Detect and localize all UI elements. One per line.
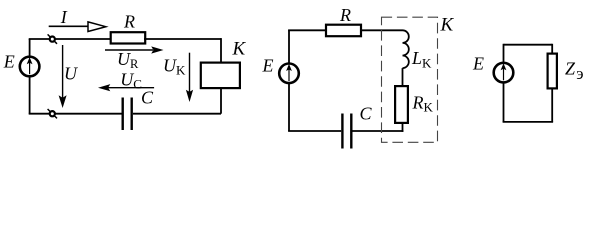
- source E2 internal arrow: [288, 69, 290, 81]
- resistor RK: [395, 86, 408, 123]
- wire: RK to bottom rail: [402, 123, 404, 132]
- capacitor C1 plates: [121, 98, 123, 131]
- dashed box K: [382, 17, 438, 142]
- wire: bottom rail left of capacitor: [29, 113, 122, 115]
- wire: left rail bottom segment: [288, 84, 290, 131]
- svg-text:I: I: [60, 7, 68, 27]
- wire: top rail right of resistor: [361, 29, 403, 31]
- wire: top rail left of resistor: [29, 38, 110, 40]
- voltage arrow UK: [189, 53, 191, 94]
- svg-text:C: C: [141, 88, 154, 108]
- svg-text:E: E: [472, 54, 484, 74]
- wire: bottom rail left of capacitor: [288, 130, 341, 132]
- terminal (top): [48, 34, 57, 43]
- voltage arrow U: [62, 45, 64, 100]
- resistor R2: [326, 25, 361, 37]
- wire: top rail left of resistor: [288, 29, 326, 31]
- wire: left rail bottom segment: [29, 77, 31, 114]
- wire: bottom rail right of capacitor: [352, 130, 403, 132]
- current arrow I: [49, 25, 90, 27]
- voltage arrow UR: [105, 49, 153, 51]
- resistor R1: [111, 32, 146, 43]
- wire: left rail bottom segment: [503, 83, 505, 122]
- source E1 circle: [20, 57, 40, 77]
- wire: right rail top segment: [220, 38, 222, 63]
- source E3 internal arrow: [503, 68, 505, 80]
- wire: between LK and RK: [402, 68, 404, 86]
- svg-text:E: E: [3, 52, 15, 72]
- wire: top rail: [504, 44, 553, 46]
- component K box: [201, 63, 240, 89]
- svg-text:Z: Z: [565, 59, 576, 79]
- terminal (bottom): [48, 109, 57, 118]
- svg-text:C: C: [360, 104, 373, 124]
- wire: bottom rail right of capacitor: [133, 113, 221, 115]
- wire: right rail top segment: [551, 44, 553, 54]
- wire: left rail top segment: [29, 39, 31, 56]
- wire: bottom rail: [503, 121, 553, 123]
- wire: right rail bottom segment: [220, 88, 222, 114]
- wire: left rail top segment: [503, 44, 505, 63]
- impedance Z rect: [548, 54, 557, 89]
- wire: right rail bottom segment: [551, 88, 553, 122]
- wire: top rail right of resistor: [144, 38, 221, 40]
- inductor LK coil: [403, 30, 409, 68]
- svg-text:K: K: [440, 15, 455, 36]
- capacitor C2 plates: [341, 114, 343, 149]
- source E1 internal arrow: [29, 62, 31, 74]
- svg-text:R: R: [339, 5, 351, 25]
- svg-text:U: U: [64, 64, 78, 84]
- svg-text:э: э: [576, 64, 583, 83]
- voltage arrow UC: [108, 87, 154, 89]
- source E2 circle: [279, 64, 299, 84]
- svg-text:E: E: [262, 56, 274, 76]
- wire: left rail top segment: [288, 30, 290, 63]
- source E3 circle: [494, 63, 514, 83]
- svg-text:K: K: [232, 39, 247, 60]
- svg-text:R: R: [123, 12, 135, 32]
